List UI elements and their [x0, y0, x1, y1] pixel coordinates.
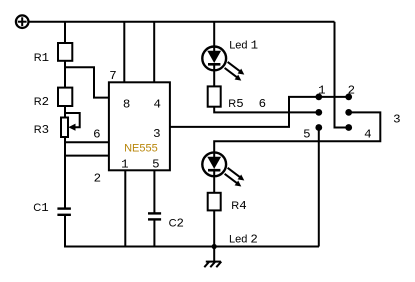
svg-text:NE555: NE555: [124, 143, 158, 155]
wire to pin 7: [65, 67, 109, 97]
svg-text:2: 2: [94, 172, 101, 186]
svg-text:R4: R4: [231, 199, 246, 213]
wire R3 down to C1: [64, 137, 66, 209]
LED D1 (Led 1): [202, 47, 244, 81]
wire R1 top drop: [64, 22, 66, 43]
svg-text:C2: C2: [169, 217, 184, 231]
wire R4 to bottom rail: [213, 210, 215, 246]
resistor R5: [208, 86, 221, 106]
wire R5 to switch pin 6: [214, 107, 319, 113]
svg-text:2: 2: [348, 83, 355, 97]
svg-text:Led 1: Led 1: [229, 39, 258, 53]
resistor R2: [58, 88, 72, 106]
svg-text:1: 1: [318, 83, 325, 97]
svg-text:5: 5: [152, 158, 159, 172]
wire switch feed from rail: [335, 22, 349, 128]
svg-text:R3: R3: [34, 123, 49, 137]
svg-text:1: 1: [121, 158, 128, 172]
svg-text:3: 3: [153, 127, 160, 141]
LED D2 (Led 2): [202, 152, 244, 186]
ground: [204, 247, 221, 268]
svg-text:Led 2: Led 2: [229, 233, 258, 247]
svg-text:R1: R1: [34, 51, 49, 65]
svg-text:4: 4: [153, 98, 160, 112]
wire switch 5 down: [318, 128, 320, 247]
svg-text:7: 7: [109, 69, 116, 83]
resistor R1: [58, 43, 72, 61]
resistor R4: [208, 193, 221, 211]
wire LED1 top drop: [213, 22, 215, 47]
potentiometer R3: [61, 113, 80, 137]
capacitor C1: [57, 209, 71, 247]
wire LED2-R4: [213, 176, 215, 193]
wire pin 2: [65, 155, 109, 157]
wire pin 8: [123, 22, 125, 83]
wire LED1-R5: [213, 70, 215, 86]
svg-text:R2: R2: [34, 95, 49, 109]
wire top rail: [29, 21, 335, 23]
wire pin 3 to switch: [170, 97, 349, 127]
svg-text:4: 4: [364, 127, 371, 141]
svg-text:8: 8: [123, 98, 130, 112]
svg-text:6: 6: [259, 97, 266, 111]
wire pin 5 to C2: [153, 170, 155, 213]
svg-text:6: 6: [93, 128, 100, 142]
op-amp U1 NE555 body: [109, 82, 170, 170]
wire R2-R3: [64, 106, 66, 118]
svg-text:R5: R5: [228, 97, 243, 111]
wire pin 1: [124, 170, 126, 246]
capacitor C2: [148, 213, 161, 246]
svg-text:C1: C1: [33, 201, 48, 215]
switch S1 contacts: [315, 94, 352, 131]
svg-text:3: 3: [393, 113, 400, 127]
wire switch 3 to LED2: [214, 112, 380, 152]
svg-text:5: 5: [303, 127, 310, 141]
wire bottom rail: [64, 246, 319, 248]
wire R1-R2: [64, 61, 66, 88]
junction dot: [212, 244, 217, 249]
wire pin 4: [153, 22, 155, 83]
wire pin 6: [65, 141, 109, 143]
power terminal P1: [16, 15, 29, 28]
